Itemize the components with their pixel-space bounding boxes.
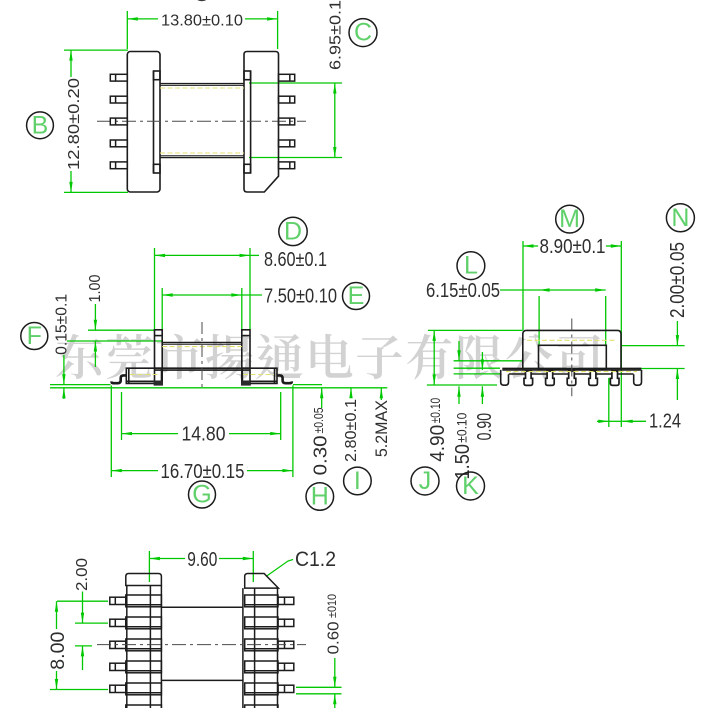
top view left pin 3 — [110, 118, 127, 125]
bottom view left pad 5 — [126, 683, 162, 695]
svg-text:13.80±0.10: 13.80±0.10 — [161, 13, 243, 30]
side view tube bottom lines — [155, 367, 251, 369]
svg-text:±0.05: ±0.05 — [311, 408, 326, 434]
end view yellow dashed — [506, 340, 637, 371]
svg-text:1.00: 1.00 — [87, 274, 104, 302]
balloon K — [457, 472, 485, 500]
side view right post — [242, 330, 250, 385]
svg-text:N: N — [671, 204, 689, 232]
svg-text:F: F — [27, 322, 42, 350]
top view right pin 4 — [279, 140, 295, 147]
svg-text:5.2MAX: 5.2MAX — [372, 400, 391, 457]
bottom view right pin 3 — [278, 641, 294, 648]
dim 6.15 dimension line — [500, 289, 606, 291]
end view left end bracket — [501, 370, 509, 385]
top view left pin 2 — [110, 96, 127, 103]
bottom view right pin 5 — [278, 685, 294, 692]
bottom view left pad 4 — [126, 661, 162, 673]
bottom view left column core — [126, 586, 128, 708]
svg-text:0.60: 0.60 — [326, 621, 343, 654]
svg-text:±0.10: ±0.10 — [453, 413, 469, 443]
top view left pin 1 — [110, 74, 127, 81]
dim 16.70 dimension line — [111, 470, 293, 472]
dim 7.50 dimension line — [162, 294, 242, 296]
dim 1.00 lines — [88, 329, 154, 331]
top view right flange with chamfer — [244, 52, 279, 193]
svg-text:H: H — [311, 483, 329, 511]
end view window — [539, 345, 607, 369]
dim 6.15 extension lines — [538, 296, 540, 345]
end view pin 4 — [589, 371, 598, 385]
top view left flange — [127, 52, 160, 193]
svg-text:9.60: 9.60 — [187, 549, 217, 571]
bottom view right pad 1 — [245, 595, 278, 607]
dim 12.80 dimension line — [70, 50, 72, 77]
top view right pin 3 — [279, 118, 295, 125]
top view right pin 5 — [279, 162, 295, 169]
bottom view flange inner edges — [160, 586, 162, 708]
dim 14.80 extension lines — [121, 392, 123, 440]
svg-text:M: M — [559, 205, 580, 233]
balloon L — [457, 252, 485, 280]
balloon H — [306, 483, 334, 511]
end view pin 5 — [610, 371, 619, 385]
dim 4.90 lines — [428, 329, 523, 331]
svg-text:±0.10: ±0.10 — [427, 398, 443, 424]
dim 5.2MAX arrow — [380, 388, 382, 400]
bottom view right pad 5 — [245, 683, 278, 695]
top view centerline — [97, 120, 306, 122]
side view right gull-wing pin — [277, 375, 292, 383]
bottom view tube lines — [161, 606, 243, 608]
svg-text:B: B — [32, 111, 49, 139]
dim 13.80 extension lines — [126, 11, 128, 49]
svg-text:I: I — [354, 467, 361, 495]
bottom view left pad 6 (cut) — [126, 705, 162, 708]
top view left pin 4 — [110, 140, 127, 147]
bottom view left pin 1 — [110, 597, 126, 604]
partial balloon at top edge — [195, 0, 208, 1]
dim 16.70 extension lines — [110, 386, 112, 478]
balloon E — [343, 283, 370, 310]
side view centerline — [201, 322, 203, 390]
svg-text:8.60±0.1: 8.60±0.1 — [264, 249, 327, 271]
top view right pin 1 — [279, 74, 295, 81]
watermark company name — [56, 333, 599, 379]
end view pin 1 — [524, 371, 533, 385]
balloon D — [279, 217, 307, 245]
end view base strip — [502, 367, 641, 369]
dim 1.50 lines — [454, 367, 500, 369]
svg-text:16.70±0.15: 16.70±0.15 — [161, 461, 245, 483]
top view left tube flange line — [153, 71, 155, 173]
bottom view left pin 3 — [110, 641, 126, 648]
dim 0.30 arrow — [321, 388, 323, 408]
side view left post — [155, 330, 163, 385]
svg-text:6.15±0.05: 6.15±0.05 — [426, 280, 500, 302]
dim 8.90 dimension line — [523, 245, 538, 247]
end view body — [523, 330, 621, 369]
dim 7.50 extension lines — [161, 288, 163, 341]
dim 8.60 dimension line — [155, 254, 251, 256]
bottom view left pin 5 — [110, 685, 126, 692]
dim 1.24 lines — [608, 378, 610, 427]
bottom view left cap — [126, 574, 162, 586]
dim 12.80 extension lines — [64, 49, 128, 51]
bottom view left pin 2 — [110, 619, 126, 626]
balloon C — [349, 19, 377, 47]
dim 2.80 arrow — [350, 388, 352, 398]
svg-text:12.80±0.20: 12.80±0.20 — [66, 78, 83, 170]
svg-text:C1.2: C1.2 — [295, 548, 336, 571]
top view right tube flange tabs — [244, 71, 251, 80]
dim 2.00±0.05 lines — [622, 345, 685, 347]
svg-text:0.15±0.1: 0.15±0.1 — [54, 294, 71, 355]
side view left base pad — [126, 368, 161, 383]
svg-text:K: K — [462, 472, 479, 500]
dim 6.95 dimension line — [334, 83, 336, 158]
side view tube top lines — [162, 342, 242, 344]
balloon J — [411, 467, 439, 495]
top view tube outline — [160, 84, 244, 158]
balloon I — [344, 467, 372, 495]
svg-text:8.90±0.1: 8.90±0.1 — [540, 236, 606, 258]
balloon N — [666, 204, 694, 232]
side view yellow dashed — [130, 347, 274, 375]
svg-text:14.80: 14.80 — [182, 424, 226, 446]
bottom view centerline — [97, 644, 306, 646]
side view left post heel — [154, 381, 163, 386]
dim 8.60 extension lines — [154, 248, 156, 329]
seating plane lines — [50, 384, 111, 386]
svg-text:E: E — [348, 282, 365, 310]
dim 8.90 extension lines — [522, 241, 524, 330]
svg-text:J: J — [419, 467, 432, 495]
top view winding yellow dashed lines — [160, 88, 244, 153]
bottom view right pad 6 (cut) — [245, 705, 278, 708]
end view pin 3 — [567, 371, 576, 385]
bottom view right column core — [254, 588, 256, 708]
dim 0.60 lines — [296, 686, 342, 688]
svg-text:7.50±0.10: 7.50±0.10 — [264, 285, 337, 307]
svg-text:L: L — [464, 252, 478, 280]
svg-text:2.00: 2.00 — [74, 558, 91, 591]
svg-text:8.00: 8.00 — [48, 632, 69, 670]
svg-text:6.95±0.1: 6.95±0.1 — [328, 0, 345, 70]
svg-text:0.90: 0.90 — [474, 413, 496, 441]
svg-text:G: G — [192, 481, 211, 509]
bottom view left pin 4 — [110, 663, 126, 670]
balloon M — [556, 205, 584, 233]
end view centerline — [571, 319, 573, 397]
svg-text:C: C — [354, 19, 372, 47]
dim 8.00 lines — [50, 689, 108, 691]
svg-text:2.00±0.05: 2.00±0.05 — [667, 242, 689, 318]
side view right base pad — [242, 368, 277, 383]
dim text 14.80 — [178, 424, 229, 441]
dim 2.00 lines — [57, 600, 108, 602]
bottom view left pad 1 — [126, 595, 162, 607]
balloon F — [21, 323, 48, 350]
balloon B — [27, 112, 54, 139]
dim text 16.70±0.15 — [158, 461, 247, 479]
extra pitch arrow — [75, 645, 92, 647]
svg-text:4.90: 4.90 — [427, 425, 449, 462]
dim 0.15 lines — [63, 355, 65, 385]
svg-text:1.24: 1.24 — [649, 411, 681, 433]
bottom view right pad 3 — [245, 639, 278, 651]
bottom view right pad 2 — [245, 617, 278, 629]
dim 9.60 extension lines — [148, 551, 150, 582]
bottom view right pin 1 — [278, 597, 294, 604]
top view right tube flange line — [250, 71, 252, 173]
bottom view right pin 4 — [278, 663, 294, 670]
svg-text:±010: ±010 — [325, 594, 339, 618]
bottom view right pin 2 — [278, 619, 294, 626]
C1.2 leader line — [266, 560, 293, 577]
svg-text:0.30: 0.30 — [311, 435, 331, 475]
end view pin 2 — [546, 371, 555, 385]
dim 14.80 dimension line — [122, 433, 281, 435]
svg-text:D: D — [284, 217, 302, 245]
balloon G — [189, 481, 216, 508]
svg-text:2.80±0.1: 2.80±0.1 — [343, 399, 360, 462]
top view left pin 5 — [110, 162, 127, 169]
bottom view left pad 3 — [126, 639, 162, 651]
end view right end bracket — [634, 370, 642, 385]
dim 6.95 extension lines — [249, 82, 342, 84]
top view left tube flange tabs — [154, 71, 161, 80]
side view left gull-wing pin — [112, 375, 127, 383]
bottom view right cap with chamfer C1.2 — [245, 574, 279, 589]
dim 0.90 lines — [481, 352, 483, 370]
dim 13.80 dimension line — [127, 18, 158, 20]
side view right post heel — [241, 381, 250, 386]
top view right pin 2 — [279, 96, 295, 103]
bottom view left pad 2 — [126, 617, 162, 629]
bottom view right pad 4 — [245, 661, 278, 673]
dim 9.60 dimension line — [149, 558, 185, 560]
